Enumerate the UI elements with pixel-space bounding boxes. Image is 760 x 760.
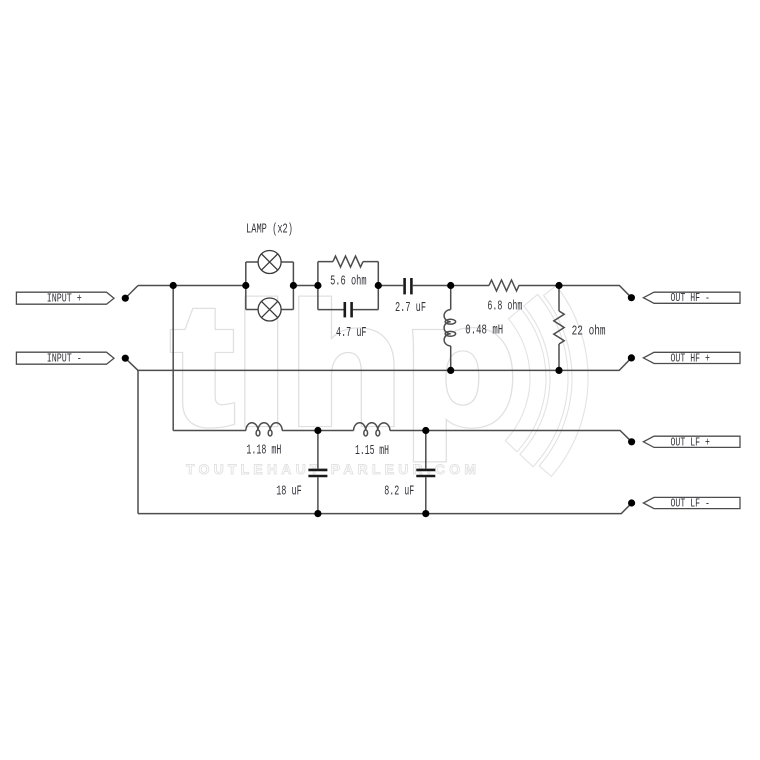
svg-text:18 uF: 18 uF [276,484,302,499]
svg-text:1.15 mH: 1.15 mH [355,444,389,459]
svg-text:0.48 mH: 0.48 mH [465,324,503,339]
svg-text:OUT LF +: OUT LF + [671,436,711,449]
svg-text:2.7 uF: 2.7 uF [395,301,426,316]
svg-text:4.7 uF: 4.7 uF [336,326,367,341]
svg-text:8.2 uF: 8.2 uF [384,484,414,499]
svg-text:OUT HF -: OUT HF - [671,292,711,305]
svg-text:6.8 ohm: 6.8 ohm [487,300,522,315]
svg-text:5.6 ohm: 5.6 ohm [330,274,367,289]
svg-text:INPUT +: INPUT + [47,293,82,306]
svg-text:OUT LF -: OUT LF - [671,498,711,511]
svg-text:LAMP (x2): LAMP (x2) [246,223,293,238]
svg-text:INPUT -: INPUT - [47,353,82,366]
svg-text:1.18 mH: 1.18 mH [246,443,281,458]
svg-text:OUT HF +: OUT HF + [671,352,711,365]
svg-text:22 ohm: 22 ohm [572,325,606,340]
